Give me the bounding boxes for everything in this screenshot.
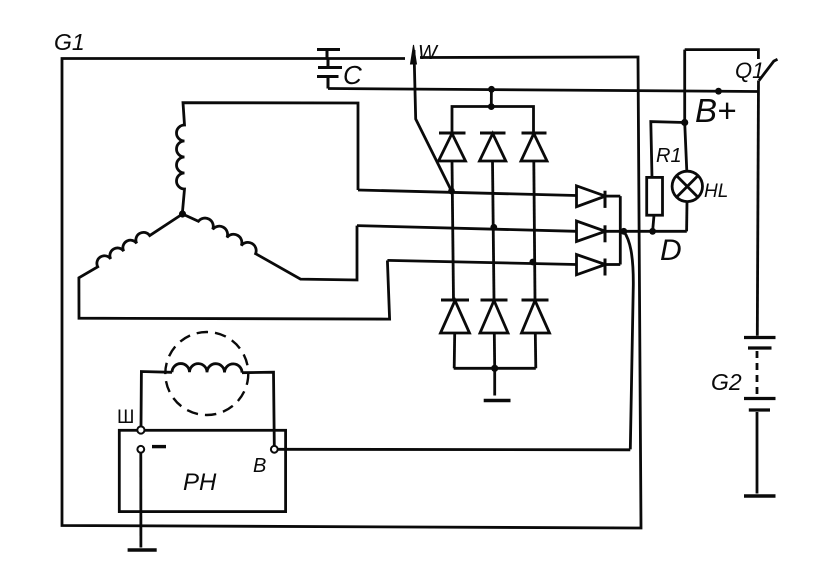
- regulator РН box: [119, 430, 285, 511]
- diode VD4: [441, 300, 470, 368]
- terminal W arrow: [411, 45, 452, 191]
- svg-text:B+: B+: [695, 92, 736, 129]
- wire phase 1: [358, 190, 577, 196]
- resistor R1: [647, 122, 685, 232]
- diode VD3: [521, 133, 547, 300]
- switch Q1: [685, 50, 778, 81]
- svg-text:W: W: [418, 42, 439, 64]
- node phase 2 junction: [490, 224, 497, 231]
- ground rectifier: [484, 368, 511, 400]
- diode VD2: [480, 133, 506, 300]
- ground regulator: [128, 548, 157, 551]
- svg-text:G2: G2: [711, 369, 742, 395]
- diode VD6: [522, 300, 550, 368]
- wire phase 2: [357, 226, 577, 232]
- node phase 1 junction: [448, 188, 455, 195]
- node phase 3 junction: [529, 259, 536, 266]
- node rectifier to B+: [488, 86, 495, 110]
- node R1 bottom: [649, 228, 656, 235]
- terminal minus: [137, 446, 166, 453]
- node bottom bus: [491, 365, 498, 372]
- wire minus to ground: [139, 453, 142, 548]
- svg-text:C: C: [343, 60, 362, 90]
- terminal В: [271, 446, 278, 453]
- wire D to regulator B: [624, 231, 634, 449]
- ground battery: [744, 494, 776, 497]
- diode VD1: [439, 133, 466, 300]
- terminal Ш: [137, 426, 144, 433]
- stator phase A winding: [177, 103, 359, 212]
- wire rotor to В: [242, 372, 274, 446]
- wire rotor to Ш: [141, 372, 172, 427]
- wire B+ to battery: [757, 81, 758, 336]
- svg-text:PH: PH: [183, 469, 217, 496]
- svg-text:D: D: [660, 234, 682, 267]
- node HL top: [681, 119, 688, 126]
- lamp HL: [672, 50, 702, 232]
- field diode VD7: [577, 186, 621, 208]
- svg-text:Q1: Q1: [735, 58, 764, 83]
- rectifier top bus: [452, 107, 534, 134]
- svg-text:HL: HL: [704, 181, 728, 202]
- rotor field winding: [165, 332, 248, 415]
- svg-text:B: B: [253, 455, 266, 477]
- wire В to D: [278, 448, 631, 451]
- diode VD5: [480, 300, 508, 368]
- capacitor C: [317, 50, 342, 89]
- rectifier bottom bus: [454, 367, 536, 370]
- wire phase 3: [387, 260, 576, 264]
- battery G2: [744, 338, 776, 494]
- svg-text:R1: R1: [656, 145, 682, 167]
- stator phase C winding: [183, 214, 358, 280]
- wire B+ line: [328, 89, 758, 92]
- field diode VD9: [577, 255, 621, 276]
- wire field diode bus: [619, 196, 622, 264]
- node star point: [179, 210, 186, 217]
- node D: [620, 228, 627, 235]
- field diode VD8: [577, 221, 624, 242]
- svg-text:Ш: Ш: [117, 407, 134, 428]
- wire D line: [624, 230, 687, 233]
- svg-text:G1: G1: [54, 29, 85, 55]
- terminal B+ node: [715, 88, 722, 95]
- stator phase B winding: [79, 214, 390, 319]
- alternator box G1: [62, 57, 641, 528]
